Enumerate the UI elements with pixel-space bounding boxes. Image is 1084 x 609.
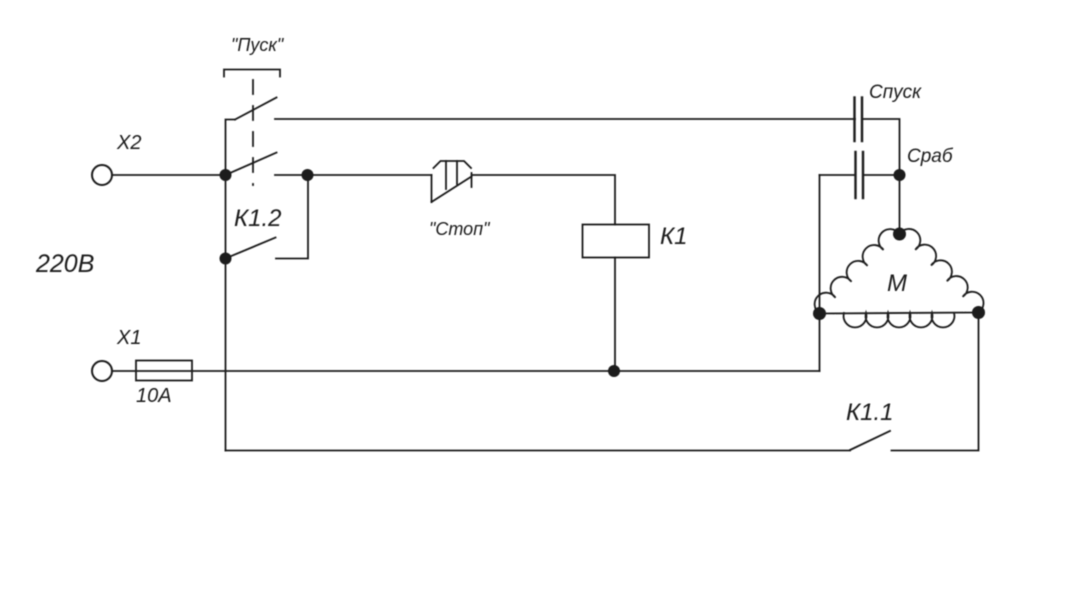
svg-text:"Пуск": "Пуск" [231,35,285,55]
wire node A down to contact K1.2 [225,175,227,259]
motor M delta winding bottom [844,313,955,327]
wire coil K1 to node D [614,258,616,372]
pushbutton SB1 "Пуск" actuator bracket [224,70,280,77]
contact K1.2 [229,175,308,259]
relay coil K1 [583,225,650,258]
capacitor Спуск [855,98,863,142]
node A junction [220,169,232,181]
fuse FU1 [136,361,192,381]
svg-text:"Стоп": "Стоп" [429,219,491,239]
wire top rail to capacitor Спуск [275,118,855,120]
wire "Стоп" to relay coil K1 [472,175,615,225]
svg-text:10А: 10А [136,385,172,407]
wire bottom rail [226,450,851,452]
terminal X2 [92,165,112,185]
pushbutton SB2 "Стоп" actuator head [434,161,472,189]
node K1.2 junction [220,253,232,265]
svg-text:К1.1: К1.1 [846,399,894,426]
svg-text:М: М [887,270,907,297]
wire K1.2 node down to bottom rail [225,259,227,451]
wire X1 rail [112,370,820,372]
node F motor top junction [893,228,906,241]
svg-text:К1: К1 [660,223,688,250]
svg-text:X1: X1 [116,327,141,349]
svg-text:X2: X2 [116,132,141,154]
motor M bottom chord [820,313,979,314]
wire capacitor Спуск to node B [862,119,900,175]
svg-text:Спуск: Спуск [869,82,922,103]
node C junction [302,169,314,181]
node E motor left junction [813,307,826,320]
contact K1.1 [850,431,890,450]
wire motor right to contact K1.1 [892,313,979,451]
wire middle rail node A to "Стоп" [275,174,432,176]
node G motor right junction [972,306,985,319]
pushbutton SB1 lower NO contact arm [229,153,277,174]
svg-text:220В: 220В [35,250,94,278]
node B junction [894,169,906,181]
svg-text:Сраб: Сраб [907,146,954,167]
node D junction [608,365,620,377]
terminal X1 [92,361,112,381]
capacitor Сраб [820,152,900,198]
pushbutton SB1 upper NO contact [226,98,277,176]
svg-text:К1.2: К1.2 [234,205,282,232]
pushbutton SB1 "Пуск" mechanical link (dashed) [252,80,254,185]
wire node B to motor [899,175,901,234]
motor M delta winding left [815,229,900,313]
wire riser X1 rail to capacitor Сраб [819,175,821,371]
motor M delta winding right [900,229,984,313]
pushbutton SB2 "Стоп" NC contact [432,173,472,202]
wire X2 to node A [112,174,226,176]
